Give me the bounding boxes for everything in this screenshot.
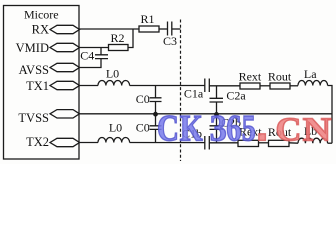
svg-text:K: K bbox=[180, 107, 203, 148]
svg-text:R2: R2 bbox=[110, 31, 124, 45]
svg-text:TX2: TX2 bbox=[26, 135, 49, 149]
svg-text:3: 3 bbox=[210, 107, 227, 148]
svg-text:AVSS: AVSS bbox=[19, 63, 49, 77]
svg-text:5: 5 bbox=[242, 107, 256, 148]
svg-text:Micore: Micore bbox=[24, 7, 59, 21]
svg-text:C0: C0 bbox=[136, 92, 150, 106]
svg-text:C4: C4 bbox=[80, 49, 94, 63]
svg-text:RX: RX bbox=[32, 23, 49, 37]
svg-text:L0: L0 bbox=[109, 121, 122, 135]
svg-text:VMID: VMID bbox=[16, 41, 49, 55]
svg-text:C: C bbox=[157, 107, 179, 148]
svg-text:C2a: C2a bbox=[226, 89, 246, 103]
svg-text:C1a: C1a bbox=[184, 87, 204, 101]
svg-text:Rext: Rext bbox=[239, 70, 262, 84]
svg-text:L0: L0 bbox=[106, 67, 119, 81]
svg-text:Rout: Rout bbox=[268, 70, 292, 84]
svg-text:C0: C0 bbox=[136, 121, 150, 135]
svg-text:C: C bbox=[276, 111, 302, 148]
svg-text:La: La bbox=[304, 67, 317, 81]
svg-text:N: N bbox=[303, 111, 332, 148]
svg-text:C3: C3 bbox=[163, 34, 177, 48]
svg-text:TVSS: TVSS bbox=[18, 111, 49, 125]
svg-text:TX1: TX1 bbox=[26, 79, 49, 93]
svg-text:R1: R1 bbox=[140, 12, 154, 26]
svg-text:6: 6 bbox=[226, 107, 241, 148]
